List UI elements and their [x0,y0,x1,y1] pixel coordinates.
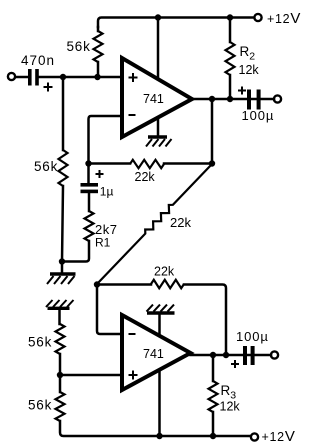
svg-text:12k: 12k [239,63,260,77]
polarity + of 470n [44,83,53,92]
wire 56k top leads [97,27,100,77]
terminal +12V bottom [251,433,258,440]
svg-text:1µ: 1µ [100,185,114,199]
polarity + of C 100u bottom [231,360,239,368]
svg-text:R1: R1 [95,236,111,250]
svg-text:56k: 56k [34,159,58,174]
wire U1 inverting input [89,116,123,164]
wire R3 leads [212,355,215,436]
node output/feedback [209,96,215,102]
svg-text:100µ: 100µ [242,108,275,123]
wire U1 ground stem [157,118,160,137]
resistor 56k (top) [94,31,103,62]
wire R2 leads [229,18,232,100]
node rail/U2 supply [156,433,162,439]
wire 22k row3 [97,285,226,356]
resistor R2 12k [226,42,235,75]
polarity + of C 100u top [238,87,246,95]
wire C1u to R1 [88,193,91,211]
node diagonal/row3 [94,281,100,287]
terminal output 2 [271,351,278,358]
wire U2 output [191,354,272,357]
svg-text:+12V: +12V [267,10,301,27]
node input/56k-left junction [60,74,66,80]
capacitor 100u top [247,90,261,110]
resistor 56k a [56,324,65,354]
wire ground to 56k a [58,308,61,324]
wire diagonal node to U2 inverting input [97,285,122,335]
resistor 56k b [56,392,65,421]
node ground junction [59,258,65,264]
svg-text:22k: 22k [170,215,191,230]
wire U2 supply stem to rail [158,370,161,436]
svg-text:22k: 22k [135,170,156,184]
svg-text:56k: 56k [28,335,52,350]
wire node to U2 noninverting input [60,374,122,377]
node output/R2 [227,96,233,102]
svg-text:56k: 56k [28,398,52,413]
wire R1 to ground node [62,241,89,262]
node feedback/C1u [85,160,91,166]
node output2/feedback2 [223,352,229,358]
svg-text:56k: 56k [67,39,91,54]
resistor 22k row3 [151,280,184,288]
node input/56k-top junction [94,74,100,80]
capacitor 100u bottom [243,346,255,365]
node feedback/diagonal [209,160,215,166]
polarity + of C 1u [96,170,104,178]
svg-text:741: 741 [143,92,164,106]
wire U1 output [192,98,274,101]
resistor 22k diagonal [97,164,212,284]
op-amp U2 741 [122,315,191,390]
capacitor 470n [28,69,39,86]
svg-text:741: 741 [143,347,164,361]
ground above 56k chain [46,300,74,308]
wire 56k mid leads [62,77,63,262]
terminal output 1 [274,95,281,102]
wire 56k b leads to bottom rail [60,375,250,436]
wire feedback node to C1u [87,164,90,184]
wire output node down to feedback node [211,99,214,164]
capacitor 1u [81,183,99,193]
terminal +12V top [254,14,261,21]
wire input terminal to C 470n [16,76,27,79]
node output2/R3 [210,352,216,358]
op-amp U1 741 [122,58,192,137]
svg-text:12k: 12k [220,400,241,414]
node rail/U1 supply [155,14,161,20]
wire ground node stem [61,262,64,274]
svg-text:+12V: +12V [262,428,296,445]
resistor 56k (mid-left) [59,150,68,186]
wire U2 ground stem [158,313,161,336]
ground above U2 [147,305,175,313]
resistor R1 2k7 [85,211,94,241]
resistor 22k feedback [130,160,164,168]
svg-text:470n: 470n [21,53,55,68]
node rail/R2 [227,14,233,20]
svg-text:100µ: 100µ [236,329,269,344]
wire C470n to op-amp U1 noninverting input [39,76,122,79]
wire feedback row [89,162,213,165]
ground under U1 [146,137,172,147]
wire 56k a to node [59,354,62,375]
resistor R3 12k [209,381,218,412]
node divider/U2 + input [57,372,63,378]
svg-text:22k: 22k [154,265,175,279]
top +12V rail wire [98,18,254,28]
ground left [47,274,76,284]
node rail/R3 [210,433,216,439]
input terminal [8,73,15,80]
wire U1 supply stem [157,18,160,79]
